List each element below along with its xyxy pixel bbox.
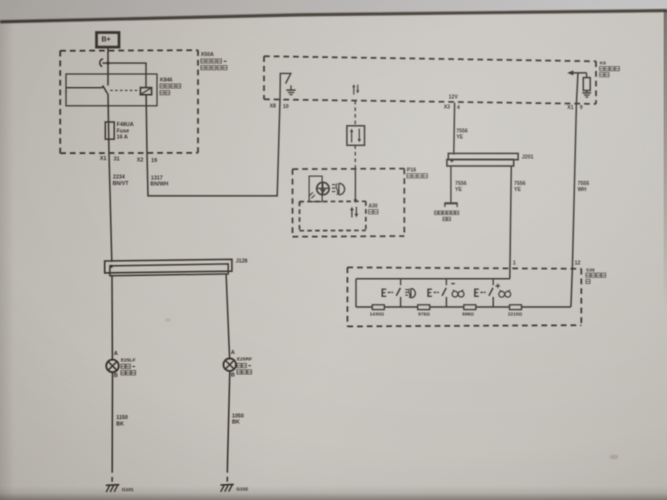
svg-text:BK: BK [116,421,124,427]
svg-text:YE: YE [456,135,463,141]
svg-text:WH: WH [578,187,587,193]
svg-text:X8: X8 [270,104,276,110]
svg-text:B: B [231,373,235,379]
svg-text:7556: 7556 [456,128,468,134]
svg-text:698Ω: 698Ω [462,311,474,316]
svg-text:E25RF: E25RF [237,357,252,363]
svg-text:A30: A30 [368,203,377,209]
svg-text:S39: S39 [586,267,595,273]
svg-text:1: 1 [513,260,516,266]
svg-text:Fuse: Fuse [117,128,130,134]
svg-text:X50A: X50A [201,52,214,58]
svg-text:X2: X2 [137,158,144,164]
svg-text:B+: B+ [102,37,111,44]
svg-text:G102: G102 [236,487,248,493]
svg-text:1430Ω: 1430Ω [370,311,384,316]
svg-text:X1: X1 [100,156,107,162]
svg-text:X1: X1 [567,105,573,111]
svg-text:12V: 12V [449,95,459,101]
svg-text:BN/VT: BN/VT [113,181,130,187]
svg-text:BK: BK [232,420,240,426]
svg-text:1150: 1150 [116,415,128,421]
svg-text:7555: 7555 [578,181,590,187]
svg-text:B: B [114,373,118,379]
svg-text:E25LF: E25LF [121,357,136,363]
svg-text:J128: J128 [236,259,248,265]
svg-text:X3: X3 [444,105,450,111]
svg-text:YE: YE [455,187,462,193]
svg-text:K9: K9 [600,61,607,67]
svg-text:12: 12 [575,261,581,267]
svg-text:9: 9 [580,105,583,111]
svg-text:A: A [231,350,235,356]
svg-text:YE: YE [514,187,521,193]
svg-text:16 A: 16 A [117,135,128,141]
svg-text:31: 31 [114,156,120,162]
svg-text:BN/WH: BN/WH [150,182,168,188]
svg-text:976Ω: 976Ω [418,311,430,316]
svg-text:F48UA: F48UA [117,122,134,128]
svg-text:K846: K846 [160,77,173,83]
svg-text:10: 10 [283,104,289,110]
svg-text:1317: 1317 [151,175,163,181]
svg-text:7556: 7556 [455,181,467,187]
svg-text:G101: G101 [122,487,134,493]
svg-text:A: A [114,351,118,357]
svg-text:4: 4 [457,105,460,111]
svg-text:19: 19 [151,158,157,164]
svg-text:1050: 1050 [232,413,244,419]
svg-text:2210Ω: 2210Ω [508,311,522,316]
svg-text:J201: J201 [522,155,534,161]
svg-text:2234: 2234 [113,175,125,181]
svg-text:P16: P16 [407,168,416,174]
svg-text:7556: 7556 [514,181,526,187]
